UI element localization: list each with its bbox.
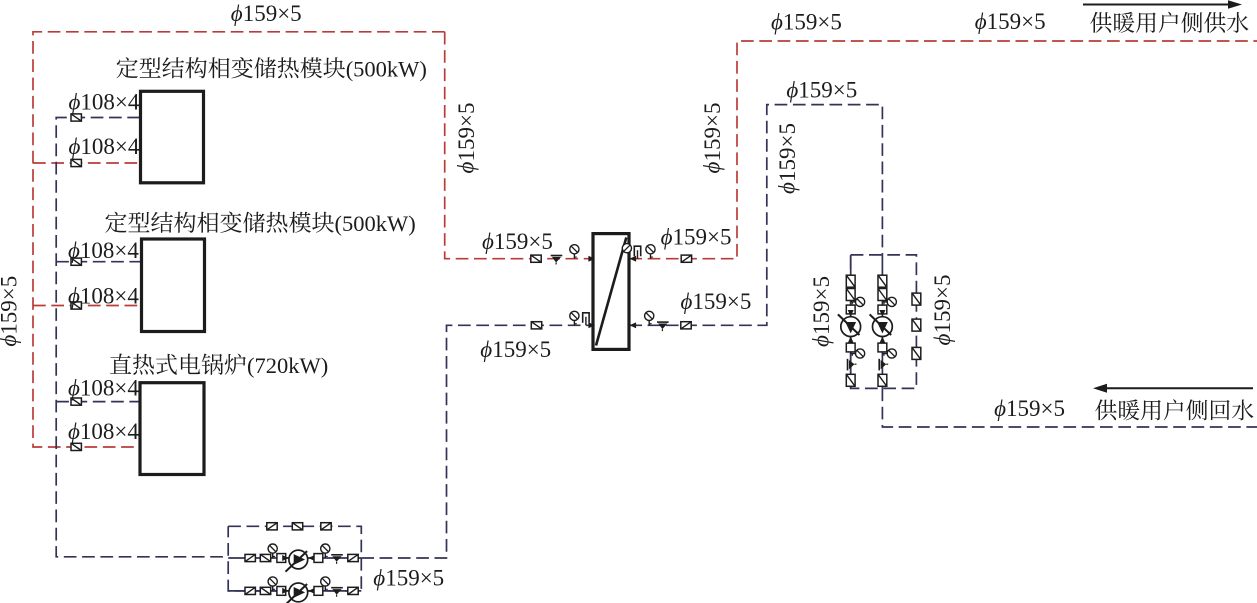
pump branch 1 inlet gauge <box>268 544 277 558</box>
gate valve on module pipe 2 <box>71 159 81 166</box>
heating users return label <box>1095 399 1253 420</box>
blue pump column 1 line <box>850 255 852 389</box>
svg-text:ϕ159×5: ϕ159×5 <box>454 103 479 174</box>
pressure gauge blue after HX <box>645 311 654 325</box>
pump branch 4 check valve <box>879 359 888 371</box>
red pipe HX to riser right <box>629 41 1257 259</box>
pump branch 4 flexible joint in <box>878 305 887 314</box>
svg-text:ϕ159×5: ϕ159×5 <box>480 337 551 362</box>
bypass gate valve pump group 2 <box>912 347 921 359</box>
module 2 label <box>105 212 334 233</box>
pump branch 4 flexible joint out <box>878 343 887 352</box>
pump branch 4 inlet gauge <box>882 297 896 306</box>
pump branch 2 outlet valve <box>348 587 358 594</box>
gate valve on module pipe 6 <box>71 443 81 450</box>
pump branch 1 flexible joint out <box>314 554 323 563</box>
svg-text:ϕ159×5: ϕ159×5 <box>0 276 21 347</box>
pump branch 3 flexible joint out <box>846 343 855 352</box>
pump branch 1 outlet valve <box>348 554 358 561</box>
gate valve red supply before HX <box>531 255 541 262</box>
pump branch 1 isolation valve B <box>260 554 270 561</box>
svg-text:ϕ159×5: ϕ159×5 <box>786 78 857 103</box>
red supply header top-left <box>33 32 445 447</box>
pump branch 4 flow arrow out <box>879 337 885 344</box>
pump branch 3 flow arrow in <box>848 310 854 317</box>
blue branch module2 <box>56 261 141 263</box>
pump branch 2 flow arrow in <box>282 588 289 594</box>
gate valve blue before HX <box>531 322 541 329</box>
plate heat exchanger <box>593 234 629 350</box>
pump branch 2 check valve <box>331 588 343 597</box>
boiler label <box>110 354 246 375</box>
svg-text:ϕ108×4: ϕ108×4 <box>69 90 140 115</box>
svg-text:ϕ159×5: ϕ159×5 <box>231 1 302 26</box>
flow arrow into HX cold side <box>588 322 595 328</box>
pump branch 1 check valve <box>331 555 343 564</box>
svg-text:(720kW): (720kW) <box>247 353 328 378</box>
svg-text:ϕ159×5: ϕ159×5 <box>771 10 842 35</box>
pump branch 2 flexible joint in <box>277 587 286 596</box>
blue pump row 2 line <box>228 590 361 592</box>
storage module 1 box <box>141 91 204 183</box>
pump branch 4 isolation valve A <box>878 275 887 287</box>
blue return header left <box>56 118 228 557</box>
red branch to module2 <box>33 305 141 307</box>
pump branch 1 flexible joint in <box>277 554 286 563</box>
blue pipe pump to HX <box>361 325 593 558</box>
gate valve on module pipe 4 <box>71 302 81 309</box>
pump branch 3 isolation valve A <box>846 275 855 287</box>
svg-text:ϕ159×5: ϕ159×5 <box>700 103 725 174</box>
electric boiler box <box>140 383 204 475</box>
gate valve on module pipe 5 <box>71 398 81 405</box>
pressure gauge 2 HX hot outlet <box>646 245 655 259</box>
svg-text:ϕ159×5: ϕ159×5 <box>994 396 1065 421</box>
svg-text:ϕ159×5: ϕ159×5 <box>661 225 732 250</box>
svg-text:ϕ159×5: ϕ159×5 <box>809 276 834 347</box>
blue return to users <box>882 388 1257 427</box>
pump branch 2 flexible joint out <box>314 587 323 596</box>
svg-text:ϕ108×4: ϕ108×4 <box>69 134 140 159</box>
check valve blue after HX <box>657 322 669 331</box>
blue pump group 2 box <box>851 255 917 389</box>
thermometer blue before HX <box>583 313 589 326</box>
svg-text:ϕ108×4: ϕ108×4 <box>68 238 139 263</box>
circulating pump P4 <box>870 314 893 336</box>
pump branch 3 outlet valve <box>846 374 855 386</box>
pressure gauge HX hot outlet <box>622 244 631 253</box>
pump branch 3 check valve <box>848 359 857 371</box>
pump branch 2 isolation valve B <box>260 587 270 594</box>
gate valve blue after HX <box>681 322 691 329</box>
blue pump group 1 box <box>228 526 361 591</box>
red branch to module1 <box>33 162 140 164</box>
pump branch 2 flow arrow out <box>308 588 315 594</box>
heating users supply label <box>1090 12 1248 33</box>
svg-text:ϕ159×5: ϕ159×5 <box>373 566 444 591</box>
pump branch 2 inlet gauge <box>268 577 277 591</box>
module 1 label <box>117 57 346 78</box>
svg-text:ϕ159×5: ϕ159×5 <box>775 123 800 194</box>
circulating pump P1 <box>286 550 308 572</box>
red riser mid <box>445 32 593 259</box>
bypass gate valve pump group 2 <box>912 293 921 305</box>
arrow to heating users supply <box>1083 0 1242 9</box>
pump branch 4 outlet gauge <box>882 349 896 358</box>
svg-text:(500kW): (500kW) <box>346 57 427 82</box>
thermometer HX hot outlet <box>634 246 640 259</box>
bypass gate valve pump group 1 <box>292 523 302 530</box>
blue branch module3 <box>56 401 140 403</box>
svg-text:ϕ108×4: ϕ108×4 <box>68 284 139 309</box>
flow arrow out of HX cold side <box>630 322 637 328</box>
gate valve on module pipe 1 <box>71 114 81 121</box>
pump branch 2 outlet gauge <box>321 577 330 591</box>
pump branch 1 flow arrow out <box>308 555 315 561</box>
gate valve on module pipe 3 <box>71 258 81 265</box>
svg-text:ϕ159×5: ϕ159×5 <box>930 275 955 346</box>
blue pump row 1 line <box>228 557 361 559</box>
blue pipe HX to right riser <box>629 105 882 326</box>
svg-text:ϕ159×5: ϕ159×5 <box>681 289 752 314</box>
pump branch 4 flow arrow in <box>879 310 885 317</box>
pump branch 2 isolation valve A <box>245 587 255 594</box>
svg-text:ϕ159×5: ϕ159×5 <box>975 9 1046 34</box>
flow arrow into HX hot side <box>588 256 595 262</box>
svg-text:(500kW): (500kW) <box>335 211 416 236</box>
pump branch 3 flow arrow out <box>848 337 854 344</box>
pump branch 4 isolation valve B <box>878 289 887 301</box>
pump branch 1 outlet gauge <box>321 544 330 558</box>
svg-text:ϕ108×4: ϕ108×4 <box>68 376 139 401</box>
bypass gate valve pump group 2 <box>912 319 921 331</box>
bypass gate valve pump group 1 <box>321 523 331 530</box>
pressure gauge red supply <box>570 245 579 259</box>
circulating pump P3 <box>838 314 861 336</box>
pump branch 3 outlet gauge <box>851 349 865 358</box>
pump branch 3 inlet gauge <box>851 297 865 306</box>
circulating pump P2 <box>286 583 308 603</box>
arrow from heating users return <box>1093 384 1253 393</box>
pressure gauge blue before HX <box>570 311 579 325</box>
bypass gate valve pump group 1 <box>267 523 277 530</box>
gate valve red after HX <box>681 255 691 262</box>
pump branch 1 flow arrow in <box>282 555 289 561</box>
svg-text:ϕ108×4: ϕ108×4 <box>68 419 139 444</box>
pump branch 3 isolation valve B <box>846 289 855 301</box>
flow arrow out of HX hot side <box>630 256 637 262</box>
storage module 2 box <box>142 239 205 332</box>
pump branch 3 flexible joint in <box>846 305 855 314</box>
check valve red supply <box>551 256 563 265</box>
blue pump column 2 line <box>881 255 883 389</box>
svg-text:ϕ159×5: ϕ159×5 <box>482 229 553 254</box>
pump branch 4 outlet valve <box>878 374 887 386</box>
pump branch 1 isolation valve A <box>245 554 255 561</box>
